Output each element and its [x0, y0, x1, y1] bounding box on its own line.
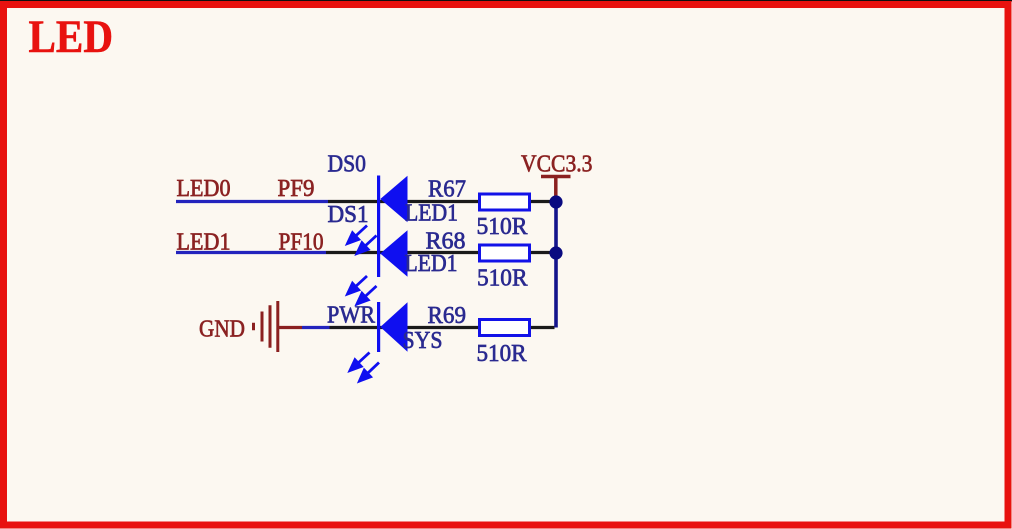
svg-text:LED1: LED1: [405, 250, 458, 277]
svg-text:LED: LED: [29, 12, 114, 63]
svg-text:SYS: SYS: [403, 327, 443, 354]
svg-text:LED1: LED1: [405, 200, 458, 227]
svg-text:VCC3.3: VCC3.3: [521, 151, 593, 178]
svg-text:R69: R69: [428, 302, 467, 329]
svg-text:R67: R67: [428, 176, 466, 203]
svg-text:LED0: LED0: [177, 175, 231, 202]
svg-text:510R: 510R: [477, 213, 529, 240]
svg-text:510R: 510R: [477, 265, 528, 292]
svg-text:510R: 510R: [477, 340, 528, 367]
svg-text:GND: GND: [199, 316, 245, 343]
svg-text:DS0: DS0: [328, 151, 367, 178]
svg-text:DS1: DS1: [328, 201, 369, 228]
svg-text:LED1: LED1: [177, 229, 231, 256]
svg-text:PF10: PF10: [279, 229, 324, 256]
svg-text:PF9: PF9: [278, 175, 315, 202]
svg-text:PWR: PWR: [327, 302, 376, 329]
